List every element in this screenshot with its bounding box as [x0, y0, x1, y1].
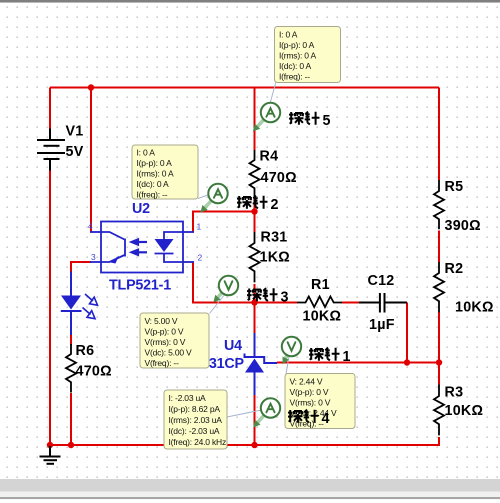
- junction R6 bottom: [68, 442, 74, 448]
- leader line box C to probe3: [210, 294, 226, 314]
- wire top rail: [50, 87, 439, 89]
- svg-text:I(rms): 2.03 uA: I(rms): 2.03 uA: [169, 415, 223, 425]
- junction U4 anode bottom: [251, 442, 257, 448]
- LED D1: [61, 272, 82, 336]
- junction node 2: [251, 208, 257, 214]
- svg-text:I(rms): 0 A: I(rms): 0 A: [279, 51, 317, 61]
- probe 5 ammeter: [253, 103, 280, 132]
- svg-text:U2: U2: [132, 201, 150, 217]
- wire U4 anode down to bottom rail: [254, 395, 256, 447]
- wire U2 pin2 down to node 3: [193, 262, 255, 303]
- svg-text:470Ω: 470Ω: [76, 364, 112, 380]
- junction node 3: [251, 299, 257, 305]
- svg-text:I(freq): 24.0 kHz: I(freq): 24.0 kHz: [169, 437, 227, 447]
- svg-text:I: 0 A: I: 0 A: [137, 148, 156, 158]
- svg-text:10KΩ: 10KΩ: [445, 403, 484, 419]
- bottom scrollbar band: [0, 479, 500, 492]
- junction ground node: [47, 442, 53, 448]
- measurement box B (probe2 I): [132, 145, 198, 200]
- probe 1 voltmeter: [282, 337, 301, 365]
- probe label tanzhen-5: [289, 112, 331, 129]
- svg-text:10KΩ: 10KΩ: [303, 309, 342, 325]
- svg-text:I(p-p): 0 A: I(p-p): 0 A: [137, 158, 173, 168]
- svg-text:V(p-p): 0 V: V(p-p): 0 V: [145, 327, 184, 337]
- resistor R5: [434, 180, 444, 229]
- wire U2 pin1 up to node 2: [193, 212, 255, 233]
- battery V1: [37, 129, 65, 171]
- probe label tanzhen-2: [237, 196, 279, 213]
- svg-text:U4: U4: [224, 338, 242, 354]
- wire V1+ branch down to U2 pin4: [90, 88, 92, 233]
- svg-text:2: 2: [271, 197, 279, 213]
- wire left rail upper (V1 plus to top rail): [49, 88, 51, 130]
- svg-text:5V: 5V: [66, 144, 84, 160]
- leader line box D to probe1: [286, 356, 289, 374]
- internal LED of U2: [155, 232, 184, 262]
- resistor R1: [297, 297, 342, 308]
- svg-text:I(freq): --: I(freq): --: [279, 72, 310, 82]
- svg-text:TLP521-1: TLP521-1: [109, 278, 171, 294]
- probe label tanzhen-4: [288, 410, 330, 427]
- svg-text:470Ω: 470Ω: [261, 170, 297, 186]
- pin 1 stub: [183, 231, 194, 233]
- leader line box E to probe4: [227, 410, 262, 417]
- resistor R31: [250, 232, 260, 282]
- probe label tanzhen-3: [247, 288, 289, 305]
- resistor R4: [250, 150, 260, 199]
- probe 3 voltmeter: [213, 276, 238, 303]
- svg-text:I(freq): --: I(freq): --: [137, 190, 168, 200]
- svg-text:1: 1: [343, 349, 351, 365]
- junction V1/U2 top: [88, 84, 94, 90]
- wire bottom rail: [50, 444, 439, 446]
- svg-text:R6: R6: [76, 343, 95, 359]
- wire U2 pin3 to LED: [71, 262, 91, 272]
- pin 3 stub: [90, 261, 101, 263]
- resistor R6: [66, 344, 76, 392]
- svg-text:390Ω: 390Ω: [445, 218, 481, 234]
- leader line box B to probe2: [198, 195, 209, 199]
- svg-text:R5: R5: [445, 179, 464, 195]
- svg-text:V(p-p): 0 V: V(p-p): 0 V: [290, 387, 329, 397]
- measurement box E (probe4 I): [164, 390, 227, 449]
- phototransistor emitter arrow: [111, 256, 120, 264]
- wire R31 bottom to node 3: [254, 284, 256, 303]
- junction C12/node1: [404, 359, 410, 365]
- light arrows: [132, 239, 147, 255]
- phototransistor: [101, 232, 125, 240]
- svg-text:I(dc): -2.03 uA: I(dc): -2.03 uA: [169, 426, 220, 436]
- wire R5 to R2: [438, 231, 440, 263]
- wire R1 to C12: [342, 302, 359, 304]
- wire node3 to R1: [255, 302, 298, 304]
- junction right rail node1: [436, 359, 442, 365]
- svg-text:I(dc): 0 A: I(dc): 0 A: [279, 61, 312, 71]
- wire R2 to node1: [438, 312, 440, 363]
- shunt regulator U4 TL431: [245, 333, 278, 395]
- optocoupler U2: [90, 222, 194, 273]
- wire node2 to R31: [254, 212, 256, 233]
- svg-text:V(rms): 0 V: V(rms): 0 V: [145, 337, 186, 347]
- probe 4 ammeter: [253, 398, 280, 427]
- measurement box A (probe5 I): [275, 27, 341, 83]
- wire R6 to bottom rail: [70, 393, 72, 446]
- svg-text:I: 0 A: I: 0 A: [279, 30, 298, 40]
- wire node1 to R3: [438, 363, 440, 385]
- probe 2 ammeter: [200, 184, 227, 213]
- svg-text:1µF: 1µF: [369, 317, 395, 333]
- svg-text:10KΩ: 10KΩ: [455, 300, 494, 316]
- leader line box A to probe5: [270, 83, 276, 104]
- wire R3 to bottom rail: [438, 437, 440, 446]
- svg-text:2: 2: [198, 253, 203, 263]
- svg-text:4: 4: [88, 221, 93, 231]
- svg-text:3: 3: [281, 289, 289, 305]
- svg-text:C12: C12: [368, 273, 395, 289]
- wire right rail top (top rail to R5): [438, 88, 440, 181]
- measurement box C (probe3 V): [140, 313, 209, 368]
- svg-text:I(p-p): 8.62 pA: I(p-p): 8.62 pA: [169, 404, 221, 414]
- wire R4 top from top rail: [254, 88, 256, 151]
- wire U4 ref to right rail (probe1 net): [277, 362, 439, 364]
- svg-text:R2: R2: [445, 261, 464, 277]
- LED emission arrows: [83, 294, 98, 319]
- svg-text:V(freq): --: V(freq): --: [145, 358, 180, 368]
- svg-text:I(rms): 0 A: I(rms): 0 A: [137, 169, 175, 179]
- capacitor C12: [359, 293, 407, 313]
- wire R4 bottom to node 2: [254, 199, 256, 212]
- svg-text:V(rms): 0 V: V(rms): 0 V: [290, 398, 331, 408]
- svg-text:V: 2.44 V: V: 2.44 V: [290, 377, 323, 387]
- measurement box D (probe1 V): [285, 374, 355, 429]
- wire LED to R6: [70, 335, 72, 346]
- svg-text:3: 3: [91, 252, 96, 262]
- svg-text:R1: R1: [311, 277, 330, 293]
- svg-text:I(dc): 0 A: I(dc): 0 A: [137, 179, 170, 189]
- svg-text:I(p-p): 0 A: I(p-p): 0 A: [279, 40, 315, 50]
- svg-text:1KΩ: 1KΩ: [260, 250, 291, 266]
- svg-text:V1: V1: [66, 124, 84, 140]
- svg-text:R31: R31: [261, 230, 288, 246]
- svg-text:R4: R4: [260, 149, 279, 165]
- wire node3 down to U4 cathode: [254, 303, 256, 334]
- probe label tanzhen-1: [309, 348, 351, 365]
- svg-text:V: 5.00 V: V: 5.00 V: [145, 316, 178, 326]
- pin 2 stub: [183, 261, 194, 263]
- pin 4 stub: [90, 231, 101, 233]
- resistor R3: [434, 385, 444, 436]
- wire C12 to node 1 right: [406, 303, 408, 363]
- resistor R2: [434, 262, 444, 312]
- svg-text:I: -2.03 uA: I: -2.03 uA: [169, 393, 207, 403]
- svg-text:5: 5: [323, 113, 331, 129]
- top toolbar edge: [0, 0, 500, 2]
- svg-text:1: 1: [197, 222, 202, 232]
- svg-text:V(dc): 5.00 V: V(dc): 5.00 V: [145, 348, 193, 358]
- ground: [40, 446, 61, 464]
- svg-text:4: 4: [322, 411, 330, 427]
- svg-text:R3: R3: [445, 385, 464, 401]
- wire left rail lower (V1 minus to ground node): [49, 170, 51, 446]
